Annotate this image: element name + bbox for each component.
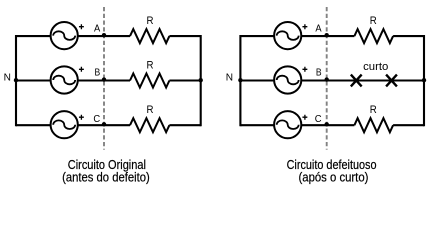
- svg-text:B: B: [95, 68, 101, 79]
- svg-text:(após o curto): (após o curto): [299, 169, 369, 184]
- svg-text:N: N: [4, 72, 11, 83]
- svg-text:curto: curto: [363, 61, 388, 73]
- svg-text:C: C: [315, 114, 322, 125]
- svg-text:A: A: [94, 24, 100, 35]
- svg-text:B: B: [316, 68, 322, 79]
- svg-text:R: R: [147, 104, 154, 116]
- svg-text:R: R: [147, 59, 154, 71]
- svg-text:R: R: [370, 15, 377, 27]
- svg-text:R: R: [370, 104, 377, 116]
- svg-text:N: N: [226, 72, 233, 83]
- svg-text:A: A: [315, 24, 321, 35]
- svg-text:R: R: [147, 15, 154, 27]
- svg-text:(antes do defeito): (antes do defeito): [62, 169, 150, 184]
- svg-text:C: C: [93, 114, 100, 125]
